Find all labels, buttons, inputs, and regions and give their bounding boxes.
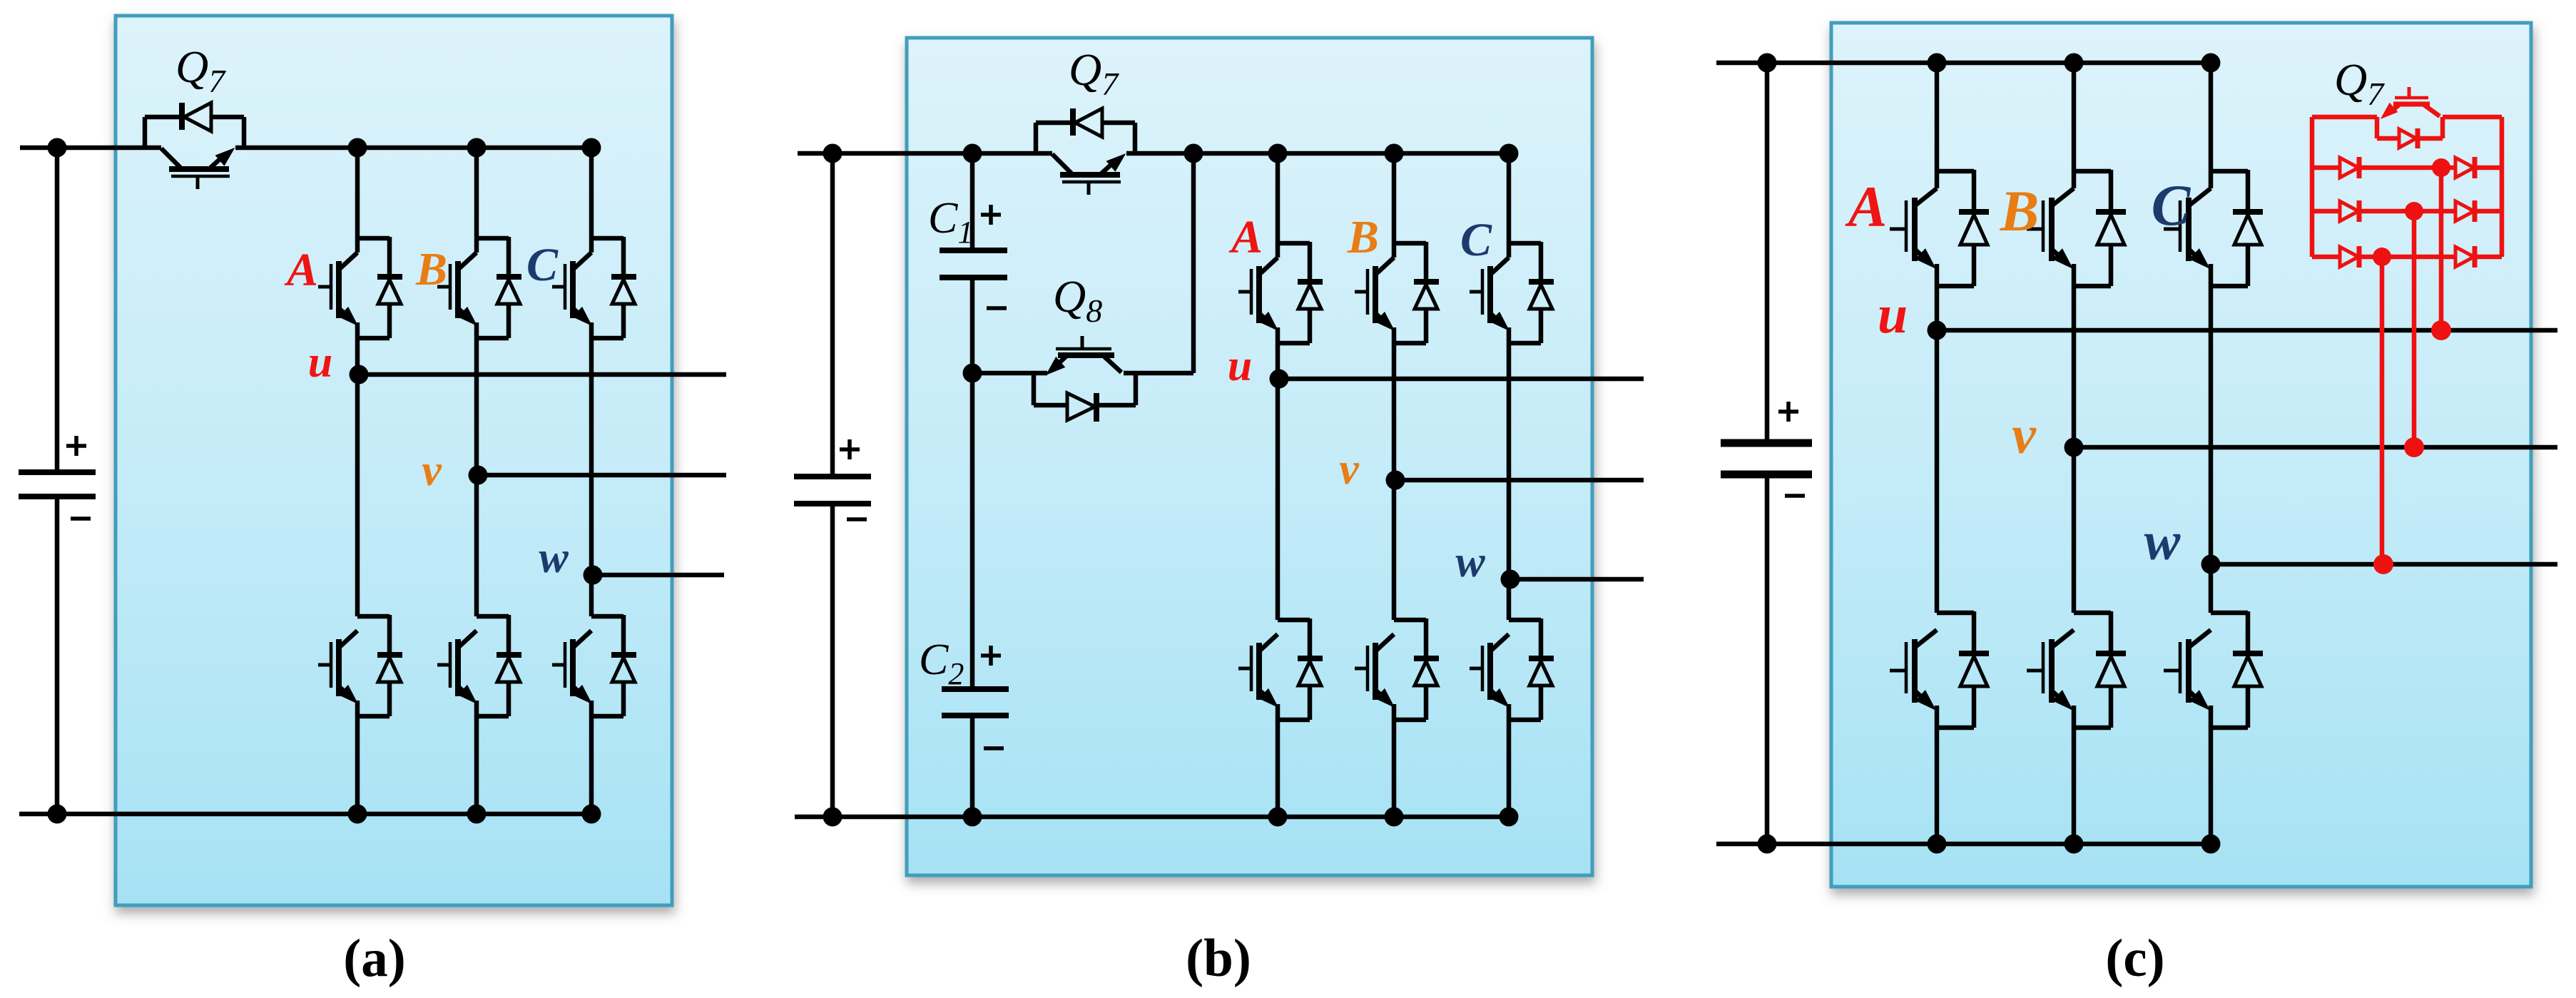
svg-text:w: w <box>539 534 569 582</box>
label (a) capacitor plus <box>66 436 86 456</box>
wire (c) phase C upper drop <box>2209 63 2214 188</box>
wire (c) phase A lower drop <box>1935 706 1940 844</box>
label u (a) <box>308 338 332 387</box>
label phase A (c) <box>1845 174 1888 239</box>
red riser to node u <box>2431 158 2451 340</box>
panel (c) background box <box>1831 23 2531 887</box>
IGBT+diode module C-low (c) <box>2164 611 2263 728</box>
label (a) capacitor minus <box>71 516 91 521</box>
wire (c) phase A mid vertical <box>1935 264 1940 613</box>
node v (b) output line <box>1395 478 1644 483</box>
IGBT+diode module C-low (b) <box>1470 618 1554 720</box>
wire (c) phase C lower drop <box>2209 706 2214 844</box>
label Q8 (b) <box>1053 271 1102 329</box>
capacitor (b) DC source plates <box>794 477 871 504</box>
IGBT+diode module C-low (a) <box>552 615 636 716</box>
wire (b) C1 branch upper <box>970 153 975 250</box>
wire (c) phase A upper drop <box>1935 63 1940 188</box>
red bridge top side <box>2312 115 2502 120</box>
wire (c) DC source vertical lower <box>1765 474 1770 844</box>
red riser to node w <box>2373 248 2393 574</box>
red riser to node v <box>2404 202 2424 457</box>
svg-text:B: B <box>2000 178 2040 243</box>
label C1 (b) <box>928 194 973 250</box>
wire (c) phase C mid vertical <box>2209 264 2214 613</box>
red Q7 antiparallel diode loop (c) <box>2377 117 2443 148</box>
svg-text:A: A <box>1845 174 1888 239</box>
label Q7 (a) <box>175 41 226 99</box>
wire (a) phase A mid vertical <box>355 322 360 616</box>
capacitor C1 (b) plates <box>940 250 1007 277</box>
bypass switch Q7 (b) antiparallel diode <box>1036 108 1135 153</box>
node w (a) junction dot <box>584 566 603 585</box>
wire (b) between Q8 node and C2 <box>970 373 975 689</box>
wire (a) phase B upper drop <box>474 148 479 253</box>
label phase B (b) <box>1347 211 1379 263</box>
wire (b) top bus left segment <box>798 151 1052 156</box>
node u (a) junction dot <box>350 365 369 385</box>
wire (c) phase B upper drop <box>2072 63 2077 188</box>
caption (b) <box>1186 929 1251 988</box>
wire (a) phase B mid vertical <box>474 322 479 616</box>
label phase A (b) <box>1228 211 1263 263</box>
label v (b) <box>1339 445 1360 494</box>
IGBT+diode module B-high (c) <box>2027 170 2126 286</box>
wire (b) between C1 and Q8 node <box>970 277 975 373</box>
IGBT+diode module B-high (a) <box>437 237 521 338</box>
wire (b) DC source vertical lower <box>830 504 835 817</box>
IGBT+diode module A-low (c) <box>1890 611 1989 728</box>
label C2 (b) <box>919 636 964 691</box>
label phase C (a) <box>526 239 559 291</box>
wire (a) DC link left vertical upper <box>55 148 60 472</box>
label (c) capacitor minus <box>1785 494 1805 498</box>
wire (a) phase A lower drop <box>355 701 360 814</box>
label (c) capacitor plus <box>1778 402 1798 422</box>
diode of Q8 (b) <box>1034 373 1136 422</box>
node v (c) junction dot <box>2065 438 2084 457</box>
junction dots (c) top bus <box>1758 54 2221 73</box>
red bridge outer frame sides <box>2312 117 2502 257</box>
wire (b) bottom bus <box>795 815 1509 820</box>
red diode row 3 / bottom side (c) <box>2312 246 2502 268</box>
IGBT+diode module C-high (b) <box>1470 242 1554 343</box>
wire (a) phase A upper drop <box>355 148 360 253</box>
wire (b) phase C upper drop <box>1507 153 1512 258</box>
svg-text:v: v <box>1339 445 1360 494</box>
label w (b) <box>1455 538 1485 586</box>
svg-text:B: B <box>415 243 447 295</box>
svg-text:C: C <box>526 239 559 291</box>
capacitor (c) DC source plates <box>1721 443 1812 474</box>
label phase A (a) <box>284 244 318 296</box>
node w (c) junction dot <box>2201 555 2221 574</box>
bypass switch Q7 (a) antiparallel diode <box>145 103 244 148</box>
wire (c) bottom bus <box>1716 842 2211 847</box>
node u (a) output line <box>359 372 726 377</box>
red diode row 1 (c) <box>2312 157 2502 178</box>
transistor Q8 (b) IGBT <box>1047 336 1121 374</box>
svg-text:u: u <box>1228 342 1252 390</box>
label v (a) <box>422 447 442 495</box>
wire (b) phase B mid vertical <box>1392 327 1397 620</box>
caption (c) <box>2105 929 2164 988</box>
wire (b) phase B upper drop <box>1392 153 1397 258</box>
wire (b) Q8 row and riser to top bus <box>972 153 1193 373</box>
wire (a) phase C lower drop <box>589 701 594 814</box>
svg-text:w: w <box>2144 511 2181 571</box>
node v (a) junction dot <box>469 466 488 485</box>
label u (b) <box>1228 342 1252 390</box>
label phase C (b) <box>1460 214 1492 266</box>
red bypass IGBT Q7 (c) <box>2382 87 2440 118</box>
IGBT+diode module C-high (c) <box>2164 170 2263 286</box>
label phase B (a) <box>415 243 447 295</box>
label Q7 (b) <box>1069 44 1119 102</box>
IGBT+diode module A-high (b) <box>1238 242 1323 343</box>
wire (a) phase C mid vertical <box>589 322 594 616</box>
caption (a) <box>343 929 405 988</box>
capacitor (a) DC source plates <box>19 472 96 497</box>
node u (c) junction dot <box>1928 321 1947 340</box>
label v (c) <box>2012 405 2037 465</box>
label (b) capacitor minus <box>847 517 867 521</box>
wire (c) phase B lower drop <box>2072 706 2077 844</box>
IGBT+diode module A-low (a) <box>318 615 402 716</box>
IGBT+diode module B-high (b) <box>1355 242 1439 343</box>
junction dots (c) bottom bus <box>1758 835 2221 854</box>
red diode row 2 (c) <box>2312 200 2502 222</box>
label phase C (c) <box>2152 173 2191 238</box>
junction dots (a) bottom bus <box>48 805 601 824</box>
svg-text:v: v <box>422 447 442 495</box>
label C2 plus <box>981 646 1001 666</box>
node u (b) output line <box>1279 377 1644 382</box>
wire (c) DC source vertical upper <box>1765 63 1770 443</box>
junction dots (b) bottom bus <box>823 808 1519 827</box>
label C1 minus <box>987 306 1007 310</box>
wire (b) C2 to bottom bus <box>970 716 975 817</box>
wire (b) phase A mid vertical <box>1276 327 1281 620</box>
svg-text:v: v <box>2012 405 2037 465</box>
wire (c) phase B mid vertical <box>2072 264 2077 613</box>
IGBT+diode module A-high (c) <box>1890 170 1989 286</box>
label phase B (c) <box>2000 178 2040 243</box>
wire (b) phase A lower drop <box>1276 704 1281 817</box>
node v (b) junction dot <box>1386 471 1405 490</box>
wire (a) top bus left segment <box>20 146 161 151</box>
svg-text:(c): (c) <box>2105 929 2164 988</box>
wire (a) phase C upper drop <box>589 148 594 253</box>
wire (b) phase A upper drop <box>1276 153 1281 258</box>
capacitor C2 (b) plates <box>942 689 1009 716</box>
label w (c) <box>2144 511 2181 571</box>
svg-text:C: C <box>2152 173 2191 238</box>
svg-text:w: w <box>1455 538 1485 586</box>
panel (a) background box <box>116 16 672 905</box>
label u (c) <box>1878 285 1908 345</box>
wire (a) phase B lower drop <box>474 701 479 814</box>
node w (c) output line <box>2211 562 2557 567</box>
label C1 plus <box>981 205 1001 225</box>
wire (a) bottom bus <box>19 812 591 817</box>
node u (b) junction dot <box>1270 370 1289 389</box>
bypass switch Q7 (a) IGBT <box>161 148 233 189</box>
node v (c) output line <box>2074 445 2557 450</box>
IGBT+diode module A-high (a) <box>318 237 402 338</box>
IGBT+diode module A-low (b) <box>1238 618 1323 720</box>
wire (c) top bus <box>1716 61 2211 66</box>
svg-text:u: u <box>308 338 332 387</box>
IGBT+diode module B-low (b) <box>1355 618 1439 720</box>
svg-text:C: C <box>1460 214 1492 266</box>
svg-text:(a): (a) <box>343 929 405 988</box>
node v (a) output line <box>478 473 726 478</box>
junction dot (b) Q8 left node <box>963 364 982 383</box>
node w (b) output line <box>1510 577 1644 582</box>
junction dots (a) top bus <box>48 138 601 158</box>
label Q7 (c) <box>2334 54 2385 112</box>
wire (a) top bus right segment <box>235 146 591 151</box>
IGBT+diode module C-high (a) <box>552 237 636 338</box>
bypass switch Q7 (b) IGBT <box>1052 154 1124 195</box>
IGBT+diode module B-low (a) <box>437 615 521 716</box>
IGBT+diode module B-low (c) <box>2027 611 2126 728</box>
svg-text:A: A <box>1228 211 1263 263</box>
wire (b) DC source vertical upper <box>830 153 835 477</box>
node w (a) output line <box>593 573 724 578</box>
wire (a) DC link left vertical lower <box>55 497 60 814</box>
label w (a) <box>539 534 569 582</box>
label C2 minus <box>984 746 1004 750</box>
svg-text:u: u <box>1878 285 1908 345</box>
svg-text:A: A <box>284 244 318 296</box>
svg-text:B: B <box>1347 211 1379 263</box>
node u (c) output line <box>1937 328 2557 333</box>
wire (b) phase C lower drop <box>1507 704 1512 817</box>
svg-text:(b): (b) <box>1186 929 1251 988</box>
node w (b) junction dot <box>1501 570 1520 589</box>
junction dots (b) top bus <box>823 144 1519 163</box>
wire (b) top bus right segment <box>1126 151 1509 156</box>
label (b) capacitor plus <box>840 439 860 459</box>
wire (b) phase B lower drop <box>1392 704 1397 817</box>
panel (b) background box <box>907 38 1592 875</box>
wire (b) phase C mid vertical <box>1507 327 1512 620</box>
